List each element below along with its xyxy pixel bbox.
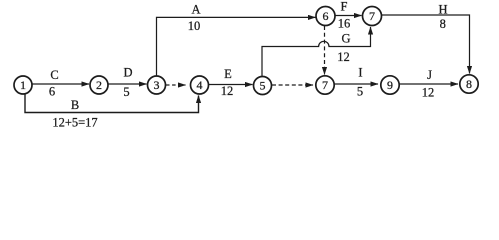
svg-text:9: 9 xyxy=(387,78,393,92)
svg-text:C: C xyxy=(50,68,58,82)
svg-text:E: E xyxy=(224,67,232,81)
node 3 xyxy=(148,76,166,94)
svg-text:4: 4 xyxy=(197,78,203,92)
svg-text:F: F xyxy=(341,0,348,14)
wire dashed dummy arrow 3-4 xyxy=(166,84,186,86)
svg-text:12: 12 xyxy=(337,50,350,64)
svg-text:B: B xyxy=(71,98,79,112)
svg-text:7: 7 xyxy=(369,9,375,23)
svg-text:I: I xyxy=(358,66,362,80)
node 8 xyxy=(460,75,478,93)
node 7 top xyxy=(363,7,382,26)
wire dashed dummy arrow 5-7 xyxy=(272,84,313,86)
svg-text:12: 12 xyxy=(422,86,435,100)
wire activity F arrow 6-7 top xyxy=(336,15,362,17)
svg-text:G: G xyxy=(341,32,350,46)
wire activity J arrow 9-8 xyxy=(400,83,459,85)
svg-text:6: 6 xyxy=(323,9,329,23)
node 5 xyxy=(254,77,272,95)
wire activity D arrow 2-3 xyxy=(108,83,147,85)
node 6 xyxy=(316,7,335,26)
svg-text:12: 12 xyxy=(221,84,234,98)
node 2 xyxy=(90,76,108,94)
wire activity A path 3-6 top xyxy=(157,17,316,76)
svg-text:12+5=17: 12+5=17 xyxy=(52,116,97,130)
wire activity G path 5-7 with hop xyxy=(262,27,371,77)
svg-text:J: J xyxy=(427,68,432,82)
svg-text:7: 7 xyxy=(322,78,328,92)
node 9 xyxy=(381,76,399,94)
svg-text:8: 8 xyxy=(440,17,446,31)
svg-text:H: H xyxy=(438,3,447,17)
wire activity I arrow 7-9 xyxy=(335,83,379,85)
svg-text:5: 5 xyxy=(123,85,129,99)
svg-text:1: 1 xyxy=(20,78,26,92)
svg-text:2: 2 xyxy=(96,78,102,92)
node 7 bottom xyxy=(316,76,334,94)
svg-text:8: 8 xyxy=(466,77,472,91)
svg-text:5: 5 xyxy=(260,79,266,93)
wire activity H path 7-8 right xyxy=(382,15,470,74)
svg-text:D: D xyxy=(123,66,132,80)
wire activity B path 1-4 bottom xyxy=(25,94,199,113)
svg-text:A: A xyxy=(191,3,200,17)
wire activity E arrow 4-5 xyxy=(209,84,253,86)
node 1 xyxy=(14,76,32,94)
svg-text:3: 3 xyxy=(154,78,160,92)
svg-text:16: 16 xyxy=(338,17,351,31)
wire dashed dummy arrow 6-7 vertical xyxy=(324,26,326,75)
svg-text:10: 10 xyxy=(188,19,201,33)
node 4 xyxy=(191,76,209,94)
wire activity C arrow 1-2 xyxy=(32,83,90,85)
svg-text:6: 6 xyxy=(49,85,55,99)
svg-text:5: 5 xyxy=(357,85,363,99)
